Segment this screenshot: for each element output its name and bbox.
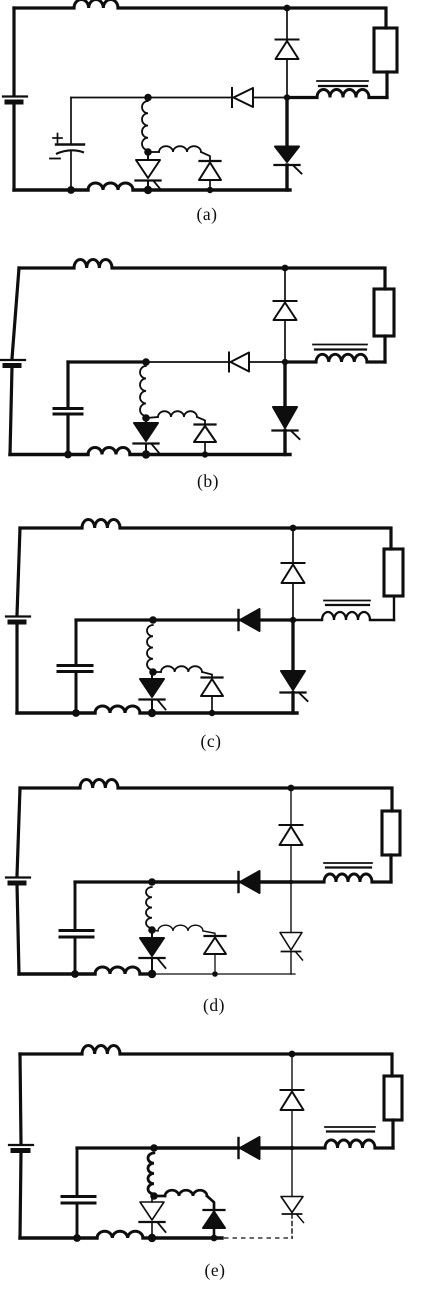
node d4 [71, 970, 79, 978]
inductor L1 (a) [74, 0, 118, 8]
wire d19 [214, 954, 216, 974]
resistor R (b) [374, 289, 394, 336]
capacitor C (e) [62, 1197, 95, 1204]
wire d23 [140, 972, 152, 975]
wire d22 [19, 972, 95, 975]
inductor L1 (d) [80, 779, 118, 788]
wire a13 [148, 97, 232, 99]
wire e22 [20, 1236, 97, 1239]
node a6 [144, 186, 152, 194]
wire e3 [20, 1052, 82, 1055]
wire a23 [133, 188, 148, 191]
core lines (c) [324, 601, 370, 606]
wire b2 [10, 367, 12, 455]
wire b10 [284, 268, 286, 301]
inductor L4 (e) [165, 1190, 207, 1196]
wire b7 [383, 336, 386, 362]
wire c2 [15, 624, 18, 714]
wire b21 [283, 431, 286, 455]
wire a21 [285, 165, 288, 190]
wire b15 [66, 362, 69, 408]
wire d6 [390, 788, 393, 811]
wire e14 [260, 1146, 293, 1149]
diode D2 (d) [239, 871, 260, 893]
wire b4 [112, 266, 285, 269]
wire b1 [12, 268, 19, 359]
wire c20 [291, 620, 294, 671]
node c2 [149, 616, 157, 624]
node c4 [72, 709, 80, 717]
wire b6 [383, 268, 386, 289]
thyristor T1 (c) [140, 672, 166, 713]
inductor L2 (b) [316, 354, 367, 362]
wire c4 [120, 526, 293, 529]
diode D1 (c) [282, 563, 305, 583]
wire e4 [120, 1052, 292, 1055]
wire e2 [20, 1152, 21, 1238]
node a2 [144, 94, 152, 102]
inductor L1 (c) [82, 519, 120, 528]
wire d1 [17, 788, 20, 876]
battery B (b) [1, 360, 25, 366]
wire e16 [76, 1204, 79, 1238]
wire e13 [154, 1146, 239, 1149]
inductor L2 (a) [317, 90, 369, 98]
node d1 [288, 785, 295, 792]
wire a1 [12, 8, 15, 95]
inductor L5 (e) [97, 1231, 143, 1238]
node c1 [290, 525, 297, 532]
capacitor C (b) [54, 409, 82, 415]
diode D3 (a) [199, 161, 221, 180]
wire b16 [66, 415, 69, 455]
core lines (e) [325, 1127, 375, 1132]
thyristor T1 (e) [140, 1196, 166, 1238]
wire b19 [204, 442, 206, 455]
node d7 [212, 971, 218, 977]
wire a12 [71, 97, 148, 99]
wire e18 [207, 1196, 214, 1210]
diode D1 (a) [276, 40, 299, 60]
wire a5 [287, 6, 383, 9]
node b1 [282, 265, 289, 272]
thyristor T2 (c) [281, 671, 308, 701]
battery B (e) [9, 1145, 33, 1151]
inductor L2 (e) [325, 1140, 375, 1148]
node e2 [150, 1144, 158, 1152]
wire c1 [17, 528, 20, 615]
node b2 [142, 358, 150, 366]
wire c5 [293, 526, 388, 529]
node b6 [142, 450, 150, 458]
inductor L3 (d) [146, 887, 152, 928]
node c3 [290, 617, 296, 623]
wire b8 [367, 360, 385, 363]
inductor L5 (b) [88, 448, 130, 455]
wire a14 [253, 97, 287, 99]
diode D1 (b) [274, 301, 297, 320]
wire c16 [75, 673, 78, 714]
wire e21 [291, 1214, 293, 1238]
wire c7 [393, 596, 395, 620]
core lines (b) [313, 345, 367, 350]
node c7 [209, 710, 215, 716]
node e1 [289, 1051, 296, 1058]
wire a2 [12, 104, 15, 191]
diode D3 (c) [201, 678, 223, 697]
wire e5 [292, 1052, 389, 1055]
node e6 [148, 1234, 156, 1242]
wire d10 [290, 788, 292, 825]
wire a19 [209, 180, 211, 190]
diode D1 (d) [280, 825, 303, 845]
wire d17 [152, 930, 158, 931]
node c6 [148, 709, 156, 717]
diode D2 (c) [239, 609, 260, 631]
battery B (c) [6, 617, 30, 623]
wire d18 [203, 931, 215, 936]
wire c21 [291, 693, 294, 714]
wire b14 [249, 361, 285, 363]
wire e-dashed [224, 1237, 293, 1239]
wire b13 [146, 361, 229, 363]
wire c17 [153, 671, 161, 673]
node b5 [142, 414, 150, 422]
svg-text:(d): (d) [203, 995, 225, 1015]
inductor L2 (c) [322, 612, 370, 620]
wire c15 [75, 620, 78, 665]
inductor L2 (d) [324, 874, 372, 882]
inductor L5 (c) [95, 706, 140, 713]
wire c24 [152, 711, 297, 714]
wire d2 [17, 885, 19, 975]
wire e7 [391, 1120, 394, 1148]
wire d3 [20, 786, 80, 789]
wire a22 [14, 188, 88, 191]
inductor L3 (e) [148, 1153, 154, 1194]
resistor R (a) [374, 28, 397, 72]
wire c23 [140, 711, 152, 714]
node a1 [284, 5, 291, 12]
node b7 [202, 451, 208, 457]
wire d5 [291, 786, 389, 789]
wire d20 [290, 882, 292, 933]
node a7 [207, 187, 213, 193]
wire e9 [292, 1146, 325, 1149]
wire c18 [202, 672, 212, 678]
diode D3 (b) [194, 425, 216, 443]
wire b23 [130, 453, 146, 456]
inductor L4 (b) [158, 411, 197, 417]
wire d12 [75, 880, 152, 883]
node b4 [64, 451, 72, 459]
thyristor T2 (e) [281, 1197, 304, 1223]
wire e24 [152, 1236, 222, 1239]
inductor L1 (e) [82, 1045, 120, 1054]
thyristor T2 (a) [275, 147, 302, 174]
wire e10 [291, 1054, 293, 1090]
node c5 [149, 668, 157, 676]
inductor L3 (c) [147, 625, 153, 670]
wire b20 [283, 362, 286, 407]
wire d4 [118, 786, 291, 789]
svg-text:(a): (a) [197, 204, 218, 224]
wire b11 [284, 320, 286, 362]
wire e19 [213, 1228, 216, 1238]
diode D2 (a) [232, 88, 253, 107]
wire e11 [291, 1110, 293, 1148]
wire b18 [197, 417, 205, 425]
wire b17 [146, 417, 158, 418]
wire c22 [17, 711, 95, 714]
wire c8 [370, 619, 394, 621]
node d5 [148, 926, 156, 934]
diode D3 (d) [204, 936, 226, 954]
diode D2 (b) [229, 353, 249, 372]
diode D1 (e) [281, 1090, 304, 1110]
wire d15 [74, 882, 77, 930]
wire c6 [389, 528, 392, 549]
wire e15 [76, 1148, 79, 1196]
svg-text:(b): (b) [197, 471, 219, 491]
core lines (a) [317, 81, 368, 86]
wire c10 [292, 528, 294, 563]
wire c11 [292, 583, 294, 620]
thyristor T1 (a) [136, 152, 162, 191]
node d2 [148, 878, 156, 886]
wire d11 [290, 845, 292, 882]
wire a15 [70, 98, 72, 144]
wire a7 [385, 72, 388, 98]
inductor L4 (a) [159, 146, 201, 152]
core lines (d) [324, 863, 372, 868]
wire d7 [389, 855, 392, 882]
wire a24 [148, 188, 290, 191]
wire a18 [201, 152, 210, 161]
wire a11 [286, 59, 288, 98]
node a3 [284, 94, 290, 100]
inductor L5 (a) [88, 183, 133, 190]
wire e17 [154, 1195, 165, 1198]
capacitor C (a) [50, 134, 84, 159]
wire d24 [152, 973, 295, 975]
resistor R (d) [382, 811, 400, 855]
wire d14 [260, 880, 292, 883]
battery B (a) [3, 97, 27, 103]
diode D2 (e) [239, 1137, 260, 1159]
wire a9 [287, 96, 317, 99]
node a5 [144, 148, 152, 156]
wire e6 [390, 1054, 393, 1076]
inductor L1 (b) [74, 259, 112, 268]
inductor L3 (a) [142, 101, 148, 150]
wire b5 [285, 266, 382, 269]
wire c13 [153, 618, 239, 621]
wire d16 [74, 938, 77, 974]
wire a8 [369, 96, 387, 99]
wire b24 [146, 453, 290, 456]
wire d13 [152, 880, 239, 883]
battery B (d) [6, 878, 30, 884]
wire a10 [286, 8, 288, 40]
wire c3 [20, 526, 82, 529]
wire b22 [10, 453, 88, 456]
node b3 [282, 359, 288, 365]
resistor R (c) [384, 549, 403, 596]
diode D3 (e) [203, 1210, 225, 1228]
node e3 [290, 1146, 294, 1150]
wire b9 [285, 360, 316, 363]
wire d9 [291, 880, 324, 883]
node e5 [150, 1192, 158, 1200]
wire b3 [19, 266, 74, 269]
wire a3 [14, 6, 74, 9]
wire e23 [143, 1236, 152, 1239]
wire c12 [76, 618, 153, 621]
thyristor T1 (b) [134, 418, 160, 455]
wire d8 [372, 880, 391, 883]
inductor L4 (d) [158, 925, 203, 931]
node a4 [67, 186, 75, 194]
node d6 [148, 970, 156, 978]
wire a17 [148, 151, 159, 153]
resistor R (e) [384, 1076, 402, 1120]
wire a16 [70, 152, 72, 191]
thyristor T1 (d) [140, 930, 166, 974]
svg-text:(c): (c) [201, 731, 222, 751]
inductor L5 (d) [95, 967, 140, 974]
inductor L3 (b) [140, 366, 146, 416]
wire e8 [375, 1146, 393, 1149]
wire a4 [118, 6, 287, 9]
wire e12 [77, 1146, 154, 1149]
node d3 [289, 880, 293, 884]
wire e1 [20, 1054, 21, 1144]
wire e20 [291, 1148, 293, 1197]
svg-text:(e): (e) [205, 1260, 226, 1280]
capacitor C (d) [60, 931, 93, 938]
wire a6 [384, 8, 387, 28]
node e4 [73, 1234, 81, 1242]
wire b12 [68, 360, 146, 363]
thyristor T2 (b) [273, 407, 300, 439]
thyristor T2 (d) [280, 933, 303, 961]
wire c14 [260, 618, 294, 621]
inductor L4 (c) [161, 666, 202, 672]
wire a20 [285, 98, 288, 147]
capacitor C (c) [58, 666, 92, 672]
wire c9 [293, 619, 322, 621]
wire c19 [211, 696, 213, 713]
node e7 [211, 1235, 218, 1242]
wire d21 [290, 952, 292, 975]
